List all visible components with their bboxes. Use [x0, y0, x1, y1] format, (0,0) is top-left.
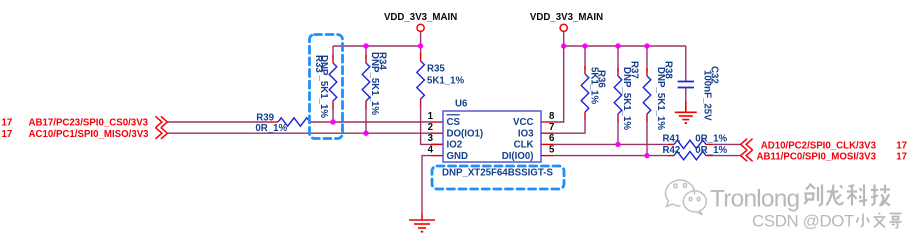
svg-text:17: 17 — [896, 140, 907, 151]
junction R34/MISO — [363, 131, 368, 136]
resistor R39 — [255, 112, 316, 134]
svg-text:0R_1%: 0R_1% — [255, 123, 287, 134]
svg-text:6: 6 — [549, 133, 555, 144]
svg-text:IO3: IO3 — [518, 128, 534, 139]
svg-text:R35: R35 — [427, 63, 445, 74]
svg-text:DO(IO1): DO(IO1) — [447, 128, 484, 139]
DNP dashed box around part value — [432, 166, 564, 189]
svg-text:5: 5 — [549, 144, 555, 155]
wire IO2 pin3 stub — [431, 143, 443, 145]
svg-text:VDD_3V3_MAIN: VDD_3V3_MAIN — [530, 12, 603, 23]
resistor R38 — [643, 46, 673, 156]
wire CS0 line — [167, 121, 269, 123]
op chip U6 body — [443, 99, 541, 163]
junction VDD stem / right rail — [561, 43, 566, 48]
off-page connector chevron MOSI — [741, 150, 753, 161]
svg-text:2: 2 — [428, 122, 433, 133]
off-page connector chevron CLK — [741, 139, 753, 150]
svg-text:R37: R37 — [628, 61, 639, 79]
resistor R35 — [417, 46, 465, 144]
svg-text:3: 3 — [428, 133, 434, 144]
svg-text:AC10/PC1/SPI0_MISO/3V3: AC10/PC1/SPI0_MISO/3V3 — [29, 129, 150, 140]
off-page connector chevron CS0 — [155, 116, 167, 127]
resistor R36 — [553, 46, 607, 133]
junction R35 / left rail — [418, 43, 423, 48]
svg-text:0R_1%: 0R_1% — [695, 145, 727, 156]
wire MOSI to chevron — [712, 155, 741, 157]
junction R37 / right rail — [615, 43, 620, 48]
junction R34 / left rail — [363, 43, 368, 48]
svg-text:17: 17 — [896, 152, 907, 163]
svg-text:5K1_1%: 5K1_1% — [427, 75, 465, 86]
svg-text:IO2: IO2 — [447, 140, 463, 151]
svg-text:0R_1%: 0R_1% — [695, 134, 727, 145]
svg-text:1: 1 — [428, 111, 434, 122]
wire VCC pin8 riser — [541, 46, 564, 122]
pin name CS with overline — [447, 115, 461, 128]
svg-text:R36: R36 — [596, 70, 607, 88]
svg-text:DNP_5K1_1%: DNP_5K1_1% — [318, 55, 329, 118]
resistor R42 — [663, 145, 728, 160]
resistor R34 — [362, 46, 387, 133]
svg-text:CS: CS — [447, 117, 461, 128]
svg-text:U6: U6 — [455, 99, 468, 110]
wire CLK pin6 — [541, 143, 668, 145]
ground under C32 — [675, 102, 697, 125]
wire IO3 pin7 stub — [541, 132, 553, 134]
junction R36 / right rail — [582, 43, 587, 48]
resistor R41 — [663, 134, 728, 149]
svg-text:DNP_XT25F64BSSIGT-S: DNP_XT25F64BSSIGT-S — [442, 168, 553, 179]
svg-text:AB11/PC0/SPI0_MOSI/3V3: AB11/PC0/SPI0_MOSI/3V3 — [756, 152, 876, 163]
wire GND pin4 — [422, 156, 443, 214]
svg-text:GND: GND — [447, 151, 469, 162]
svg-text:R34: R34 — [377, 52, 388, 70]
svg-text:17: 17 — [2, 118, 13, 129]
svg-text:R39: R39 — [256, 112, 274, 123]
junction R33/CS0 — [330, 119, 335, 124]
DNP dashed box around R33 — [310, 35, 343, 139]
wire right VDD rail — [564, 45, 686, 47]
svg-text:7: 7 — [549, 122, 554, 133]
wire CLK to chevron — [712, 143, 741, 145]
resistor R37 — [614, 46, 639, 144]
resistor R33 — [313, 46, 337, 122]
wire DI pin5 — [541, 155, 668, 157]
svg-text:C32: C32 — [709, 66, 720, 84]
svg-text:VCC: VCC — [513, 117, 533, 128]
junction R38 / right rail — [644, 43, 649, 48]
svg-text:CLK: CLK — [514, 140, 534, 151]
capacitor C32 — [678, 46, 720, 121]
svg-text:AB17/PC23/SPI0_CS0/3V3: AB17/PC23/SPI0_CS0/3V3 — [29, 118, 149, 129]
svg-text:VDD_3V3_MAIN: VDD_3V3_MAIN — [384, 12, 457, 23]
wire left VDD rail — [333, 45, 421, 47]
svg-text:DI(IO0): DI(IO0) — [502, 151, 534, 162]
junction R38/DI — [644, 153, 649, 158]
wire CS0 to pin1 — [316, 121, 431, 123]
svg-text:R42: R42 — [663, 145, 681, 156]
power symbol VDD_3V3_MAIN (right) — [530, 12, 603, 46]
svg-text:4: 4 — [428, 144, 434, 155]
svg-text:17: 17 — [2, 129, 13, 140]
power symbol VDD_3V3_MAIN (left) — [384, 12, 457, 46]
svg-text:8: 8 — [549, 111, 555, 122]
svg-text:R38: R38 — [662, 61, 673, 79]
ground under U6 — [409, 214, 435, 233]
svg-text:AD10/PC2/SPI0_CLK/3V3: AD10/PC2/SPI0_CLK/3V3 — [761, 140, 877, 151]
svg-text:R41: R41 — [663, 134, 681, 145]
off-page connector chevron MISO — [155, 128, 167, 139]
junction R37/CLK — [615, 142, 620, 147]
wire MISO line to pin2 — [167, 132, 431, 134]
